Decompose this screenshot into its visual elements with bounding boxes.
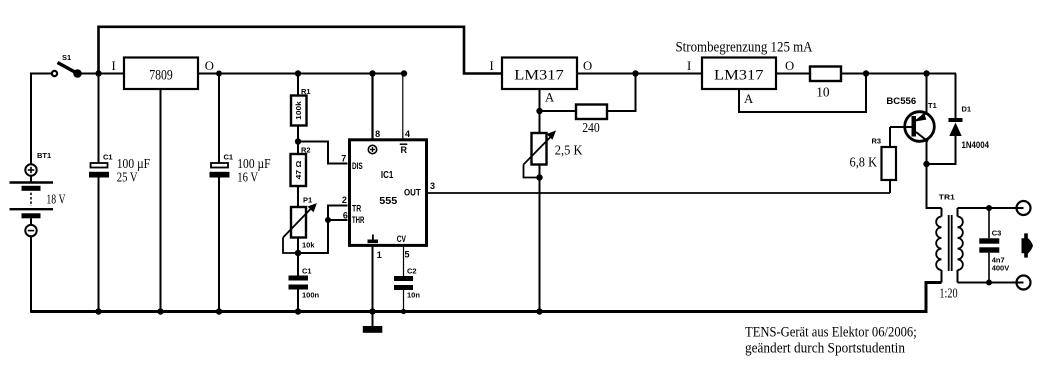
- svg-text:C2: C2: [407, 267, 417, 276]
- node A1 junction: [536, 108, 542, 114]
- node C1b junction: [216, 71, 222, 77]
- svg-text:7: 7: [341, 153, 346, 163]
- resistor R2 47ohm: [291, 146, 311, 208]
- svg-text:D1: D1: [962, 104, 972, 113]
- node LM317#1 out junction: [632, 70, 638, 76]
- node P1 bottom junction: [295, 250, 301, 256]
- svg-text:1N4004: 1N4004: [962, 140, 990, 150]
- node pin4 junction: [401, 70, 407, 76]
- capacitor C2 10n: [394, 267, 420, 313]
- terminal output bottom: [1017, 276, 1031, 290]
- wire 555 OUT pin3 run: [427, 192, 890, 194]
- svg-text:S1: S1: [62, 53, 71, 62]
- svg-text:OUT: OUT: [404, 188, 421, 198]
- output arrow symbol: [1022, 233, 1034, 257]
- wire LM317#2 output to R10: [776, 73, 810, 75]
- capacitor C1 100uF 25V: [89, 74, 150, 313]
- svg-text:BC556: BC556: [886, 96, 916, 106]
- resistor R1 100k: [291, 74, 311, 155]
- svg-text:2: 2: [342, 195, 347, 205]
- wire LM317#2 adjust loop: [739, 74, 866, 113]
- regulator 7809: [112, 58, 214, 90]
- svg-text:1: 1: [377, 250, 382, 260]
- regulator LM317 U1: [490, 58, 593, 105]
- node C3 top: [986, 205, 992, 211]
- transistor T1 BC556: [886, 74, 936, 165]
- svg-text:TR1: TR1: [939, 192, 955, 201]
- svg-text:25 V: 25 V: [117, 169, 138, 184]
- wire secondary bottom: [958, 282, 1024, 284]
- wire pin 1 to ground: [372, 246, 374, 326]
- switch S1: [52, 53, 99, 77]
- ground rail: [31, 283, 942, 312]
- wire 18V top run to LM317#1 input: [99, 27, 503, 74]
- svg-text:I: I: [490, 59, 494, 73]
- svg-text:Strombegrenzung 125 mA: Strombegrenzung 125 mA: [676, 40, 813, 56]
- svg-text:C1: C1: [302, 267, 312, 276]
- svg-text:10: 10: [816, 85, 830, 100]
- wire secondary top: [958, 207, 1024, 209]
- wire A1 to R 240: [540, 110, 577, 112]
- svg-text:DIS: DIS: [352, 161, 363, 171]
- wire LM317#1 output: [577, 73, 702, 75]
- capacitor C3 4n7 400V: [979, 208, 1009, 283]
- node C3 bottom: [986, 280, 992, 286]
- wire junction to DIS pin7: [298, 142, 348, 164]
- wire 7809 ground pin: [160, 89, 162, 312]
- svg-text:400V: 400V: [992, 264, 1010, 273]
- svg-text:O: O: [583, 59, 592, 73]
- svg-text:2,5 K: 2,5 K: [555, 143, 583, 158]
- svg-text:IC1: IC1: [381, 169, 394, 181]
- node C2 on ground rail: [401, 309, 406, 314]
- diode D1 1N4004: [927, 74, 990, 165]
- svg-text:47 Ω: 47 Ω: [296, 160, 303, 179]
- svg-text:I: I: [687, 59, 691, 73]
- node pin1 on ground rail: [369, 308, 375, 314]
- svg-text:O: O: [785, 59, 794, 73]
- wire pin 5 to C2: [403, 246, 405, 276]
- ground symbol: [363, 326, 383, 333]
- svg-text:geändert durch Sportstudentin: geändert durch Sportstudentin: [745, 341, 906, 357]
- resistor 10: [810, 67, 841, 100]
- capacitor C1 100uF 16V: [210, 74, 271, 313]
- wire base: [890, 126, 912, 128]
- svg-text:BT1: BT1: [37, 151, 51, 160]
- node pin8 junction: [369, 70, 375, 76]
- node out2 junction: [863, 70, 869, 76]
- svg-text:LM317: LM317: [514, 67, 564, 83]
- node C1a on ground rail: [95, 308, 101, 314]
- node C1b on ground rail: [216, 308, 222, 314]
- node collector junction: [923, 161, 929, 167]
- svg-text:100n: 100n: [302, 291, 320, 300]
- wire pin 4 to 9V rail: [402, 74, 404, 141]
- potentiometer P1 10k: [283, 196, 317, 276]
- svg-text:R3: R3: [872, 137, 882, 146]
- regulator LM317 U2: [687, 58, 794, 107]
- wire battery top to switch: [30, 74, 52, 165]
- wire collector to transformer primary: [927, 164, 942, 208]
- node C1c on ground rail: [295, 308, 301, 314]
- svg-text:1:20: 1:20: [939, 285, 957, 300]
- svg-text:555: 555: [379, 195, 397, 207]
- wire R10 to out node: [841, 73, 866, 75]
- svg-text:10k: 10k: [302, 241, 315, 250]
- wire pin 8 to 9V rail: [371, 74, 373, 141]
- wire R240 to out node: [607, 74, 636, 112]
- node pin6 junction: [325, 217, 331, 223]
- svg-text:P1: P1: [303, 196, 312, 205]
- wire out2 to transistor/diode: [866, 73, 956, 75]
- potentiometer 2.5K: [524, 111, 583, 312]
- node emitter junction: [923, 70, 929, 76]
- svg-text:LM317: LM317: [714, 67, 764, 83]
- wire 9V rail: [198, 73, 404, 75]
- svg-text:240: 240: [582, 120, 600, 135]
- resistor 240: [576, 105, 607, 136]
- svg-text:8: 8: [375, 129, 380, 139]
- node R1/R2 junction: [295, 138, 301, 144]
- svg-text:R: R: [401, 145, 408, 155]
- node: 18V node after switch: [95, 70, 101, 76]
- capacitor C1 100n: [289, 267, 320, 313]
- svg-text:C1: C1: [103, 153, 113, 162]
- svg-text:A: A: [744, 92, 754, 106]
- svg-text:6,8 K: 6,8 K: [850, 154, 878, 169]
- svg-text:C3: C3: [992, 228, 1002, 237]
- node pot wiper junction: [536, 174, 542, 180]
- resistor R3 6.8K: [850, 127, 897, 193]
- svg-text:100k: 100k: [296, 101, 303, 120]
- svg-text:C1: C1: [224, 153, 234, 162]
- svg-text:5: 5: [405, 250, 410, 260]
- transformer TR1: [936, 192, 963, 300]
- IC1 555 TIMER: [350, 140, 427, 246]
- svg-text:10n: 10n: [407, 291, 420, 300]
- node R1 top junction: [295, 70, 301, 76]
- wire LM317#1 adjust pin: [539, 89, 541, 111]
- svg-text:T1: T1: [928, 101, 937, 110]
- svg-text:CV: CV: [397, 234, 406, 244]
- svg-text:O: O: [205, 59, 214, 73]
- node 7809 gnd on rail: [157, 308, 163, 314]
- svg-text:16 V: 16 V: [237, 169, 258, 184]
- svg-text:4: 4: [405, 129, 410, 139]
- svg-text:18 V: 18 V: [46, 192, 65, 207]
- terminal output top: [1017, 201, 1031, 215]
- wire pin2/pin6 to P1 wiper node: [298, 206, 348, 254]
- svg-text:A: A: [545, 91, 555, 105]
- svg-text:TR: TR: [352, 203, 362, 213]
- svg-text:3: 3: [430, 181, 435, 191]
- svg-text:7809: 7809: [149, 67, 173, 83]
- svg-text:THR: THR: [352, 215, 365, 225]
- wire to 7809 input: [99, 73, 125, 75]
- svg-text:TENS-Gerät aus Elektor 06/2006: TENS-Gerät aus Elektor 06/2006;: [745, 324, 917, 340]
- svg-text:I: I: [112, 59, 116, 73]
- battery BT1: [10, 151, 66, 313]
- node pot on ground rail: [536, 308, 542, 314]
